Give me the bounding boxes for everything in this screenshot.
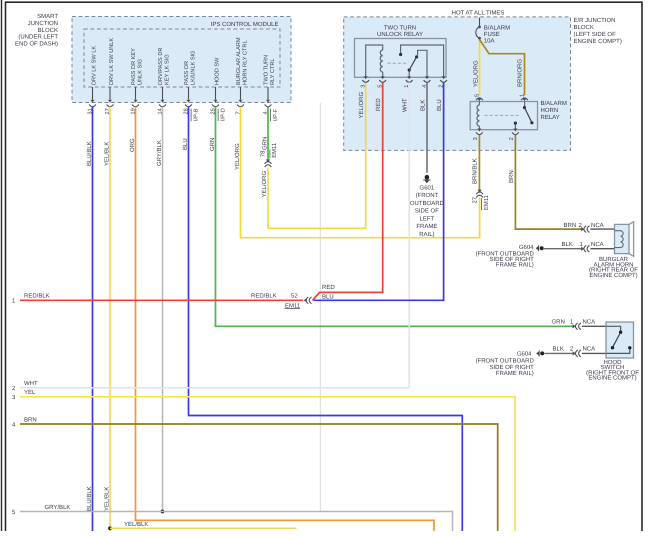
two turn relay pin 5 connector (378, 76, 386, 88)
svg-text:RAIL): RAIL) (419, 231, 434, 238)
fuse label (484, 25, 510, 45)
svg-text:BRN: BRN (508, 170, 515, 183)
wire into horn pin2 (590, 228, 614, 230)
svg-text:BRN/BLK: BRN/BLK (472, 158, 479, 184)
wire YEL/ORG pin7 (to EM11-27) (241, 107, 480, 238)
svg-text:FRAME RAIL): FRAME RAIL) (496, 262, 534, 269)
B/ALARM fuse 10A (476, 18, 481, 40)
svg-text:HOOD SW: HOOD SW (214, 57, 220, 85)
svg-text:ENGINE COMPT): ENGINE COMPT) (589, 272, 637, 279)
svg-text:YEL/ORG: YEL/ORG (261, 170, 268, 197)
wire YEL/ORG fuse to b/alarm horn relay pin 5 (479, 40, 481, 96)
svg-text:BURGLAR ALARM: BURGLAR ALARM (236, 37, 242, 85)
svg-text:RED: RED (322, 284, 335, 291)
IPS pin 14 (DRV/PASS DR) (157, 48, 170, 115)
svg-text:GRY/BLK: GRY/BLK (156, 140, 163, 166)
svg-text:78: 78 (260, 150, 267, 157)
ground G601 (423, 175, 430, 184)
svg-text:DRV/PASS DR: DRV/PASS DR (157, 48, 164, 85)
svg-text:NCA: NCA (591, 222, 604, 229)
svg-text:DRV LK SW UNLK: DRV LK SW UNLK (109, 38, 115, 85)
svg-text:GRN: GRN (209, 138, 216, 151)
connector BLK 1 NCA (burglar alarm horn) (562, 241, 604, 252)
svg-text:LEFT: LEFT (420, 215, 435, 222)
wire GRN pin4 (to EM11-78) (267, 107, 269, 160)
smart junction block (dashed box, blue fill) (72, 17, 291, 103)
wire BLU relay pin2 to EM11-52 (314, 82, 444, 300)
wire hood switch pin2 to ground G604 (545, 352, 574, 354)
svg-text:NCA: NCA (591, 241, 604, 248)
svg-text:YEL/ORG: YEL/ORG (358, 91, 365, 118)
svg-text:BLOCK: BLOCK (38, 27, 58, 34)
svg-text:RELAY: RELAY (541, 114, 560, 121)
svg-text:NCA: NCA (583, 346, 596, 353)
svg-text:(UNDER LEFT: (UNDER LEFT (18, 34, 58, 41)
svg-text:WHT: WHT (402, 98, 409, 112)
wire RED/BLK from left edge (circuit 1) (20, 299, 303, 301)
svg-text:SIDE OF: SIDE OF (415, 208, 439, 215)
svg-text:5: 5 (474, 94, 480, 97)
wire BLK relay pin4 to G601 (426, 82, 428, 172)
svg-text:SIDE OF RIGHT: SIDE OF RIGHT (489, 364, 534, 371)
wire GRY/BLK circuit 5 (20, 512, 453, 532)
ground G604 (hood switch) (536, 350, 544, 356)
svg-text:3: 3 (361, 85, 367, 88)
wire BLU/BLK pin31 (92, 107, 94, 531)
IPS pin 28 (PASS DR) (183, 50, 199, 121)
wire horn pin1 to ground G604 (544, 248, 582, 250)
svg-text:PASS DR KEY: PASS DR KEY (131, 48, 137, 85)
svg-text:RED/BLK: RED/BLK (24, 293, 50, 300)
svg-text:YEL/BLK: YEL/BLK (104, 142, 111, 166)
wire GRN pin25 (to hood switch) (216, 107, 574, 327)
relay switch (two turn) (399, 45, 444, 77)
inline connector EM11-78 (260, 143, 279, 167)
svg-text:(FRONT OUTBOARD: (FRONT OUTBOARD (476, 357, 535, 364)
wire BRN circuit 4 (20, 424, 498, 531)
svg-text:BRN: BRN (564, 222, 577, 229)
wire ORG pin19 (136, 107, 435, 531)
svg-text:GRN: GRN (262, 137, 269, 150)
junction dot GRY/BLK (161, 510, 165, 514)
horn relay top pin 1 connector (520, 94, 528, 101)
svg-text:(FRONT: (FRONT (416, 192, 439, 199)
svg-text:27: 27 (471, 197, 478, 204)
svg-text:10A: 10A (484, 38, 495, 45)
svg-text:BLU: BLU (322, 293, 334, 300)
svg-text:WHT: WHT (24, 380, 38, 387)
svg-text:RED: RED (375, 98, 382, 111)
wire into hood switch pin1 (582, 325, 606, 327)
svg-text:HORN: HORN (541, 107, 559, 114)
svg-text:BLU: BLU (436, 99, 443, 111)
horn relay bottom pin 2 connector (509, 129, 519, 141)
svg-text:52: 52 (291, 293, 298, 300)
svg-text:UNLK SIG: UNLK SIG (137, 59, 143, 85)
svg-text:HOT AT ALL TIMES: HOT AT ALL TIMES (452, 10, 505, 17)
svg-text:DRV LK SW LK: DRV LK SW LK (91, 46, 97, 85)
svg-text:OUTBOARD: OUTBOARD (410, 200, 445, 207)
svg-text:SMART: SMART (37, 13, 58, 20)
svg-text:GRY/BLK: GRY/BLK (45, 504, 71, 511)
svg-text:G601: G601 (420, 184, 435, 191)
svg-text:ENGINE COMPT): ENGINE COMPT) (588, 375, 636, 382)
IPS pin 25 (HOOD SW) (210, 57, 226, 121)
svg-text:BLU/BLK: BLU/BLK (86, 141, 93, 166)
svg-text:FUSE: FUSE (484, 31, 500, 38)
svg-text:3: 3 (473, 137, 479, 140)
svg-text:YEL: YEL (24, 389, 36, 396)
IPS pin 19 (PASS DR KEY) (130, 48, 143, 115)
wire WHT relay pin1 (20, 82, 409, 387)
connector GRN 1 NCA (hood switch) (552, 319, 596, 330)
wire GRY/BLK pin14 (162, 107, 164, 512)
svg-text:E/R JUNCTION: E/R JUNCTION (574, 17, 616, 24)
IPS control module (inner dashed box) (84, 29, 280, 87)
horn relay switch (514, 102, 534, 130)
svg-text:KEY LK SIG: KEY LK SIG (164, 54, 170, 85)
wire BRN/ORG fuse to b/alarm horn relay pin 1 (480, 40, 525, 96)
b/alarm horn relay box (470, 102, 537, 130)
svg-text:BLK: BLK (420, 100, 427, 111)
svg-text:EM11: EM11 (271, 143, 278, 158)
horn relay mechanical link (dashed) (485, 114, 519, 116)
svg-text:YEL/BLK: YEL/BLK (104, 487, 111, 511)
svg-text:YEL/BLK: YEL/BLK (124, 521, 148, 528)
svg-text:HORN RLY CTRL: HORN RLY CTRL (242, 40, 248, 85)
wire YEL circuit 3 (20, 397, 515, 531)
svg-text:(LEFT SIDE OF: (LEFT SIDE OF (574, 31, 617, 38)
two turn relay pin 4 connector (422, 76, 430, 88)
junction dot YEL/BLK (108, 526, 112, 530)
IPS pin 31 (DRV LK SW LK) (87, 46, 97, 115)
svg-text:2: 2 (509, 137, 515, 140)
svg-text:JUNCTION: JUNCTION (28, 20, 58, 27)
svg-text:ORG: ORG (129, 138, 136, 152)
svg-text:B/ALARM: B/ALARM (541, 100, 567, 107)
svg-text:UNLOCK RELAY: UNLOCK RELAY (377, 31, 423, 38)
b/alarm horn relay label (541, 100, 567, 121)
G601 label (410, 184, 445, 238)
two turn unlock relay box (355, 39, 447, 78)
svg-text:BRN: BRN (24, 416, 37, 423)
connector BRN 2 NCA (burglar alarm horn) (564, 222, 604, 233)
two turn relay pin 3 connector (361, 76, 369, 88)
svg-text:1: 1 (520, 94, 526, 97)
svg-text:BRN/ORG: BRN/ORG (517, 59, 524, 87)
svg-text:GRN: GRN (552, 319, 565, 326)
hood switch label (586, 359, 639, 382)
burglar alarm horn symbol (615, 222, 634, 257)
connector BLK 2 NCA (hood switch) (553, 346, 596, 357)
svg-text:RLY CTRL: RLY CTRL (270, 58, 276, 85)
wire BRN/BLK horn relay pin3 to EM11-27 (478, 135, 480, 190)
IPS pin 27 (DRV LK SW UNLK) (105, 38, 115, 115)
svg-text:END OF DASH): END OF DASH) (15, 40, 58, 47)
svg-text:I/P-F: I/P-F (272, 108, 279, 121)
svg-text:G604: G604 (519, 244, 534, 251)
svg-text:BLOCK: BLOCK (574, 24, 594, 31)
svg-text:TWO TURN: TWO TURN (263, 55, 269, 85)
svg-text:G604: G604 (517, 351, 532, 358)
relay coil (two turn) (366, 45, 383, 77)
wire YEL/ORG pin4 continuation (to two-turn relay pin 3) (268, 82, 366, 228)
inline connector EM11-52 (285, 293, 312, 310)
svg-text:BLU: BLU (182, 138, 189, 150)
ground G604 (horn) (536, 245, 544, 251)
svg-text:IPS CONTROL MODULE: IPS CONTROL MODULE (211, 21, 279, 28)
page edge line (left outer) (1, 0, 3, 531)
horn relay top pin 5 connector (474, 94, 482, 101)
fold line (faint) (319, 103, 321, 512)
svg-text:B/ALARM: B/ALARM (484, 25, 510, 32)
svg-text:BLU/BLK: BLU/BLK (86, 486, 93, 511)
svg-text:BLK: BLK (562, 241, 573, 248)
svg-text:I/P-B: I/P-B (192, 108, 199, 121)
svg-text:EM11: EM11 (483, 195, 490, 210)
wire BLU pin28 (189, 107, 463, 531)
smart junction block label (15, 13, 58, 47)
relay mechanical link (dashed) (388, 62, 407, 64)
E/R junction block label (574, 17, 622, 45)
wire YEL/BLK pin27 (109, 107, 111, 531)
horn relay bottom pin 3 connector (473, 129, 483, 141)
wire RED relay pin5 to EM11-52 (313, 82, 383, 300)
svg-text:YEL/ORG: YEL/ORG (473, 60, 480, 87)
hood switch symbol (606, 322, 634, 358)
svg-text:YEL/ORG: YEL/ORG (234, 143, 241, 170)
two turn relay pin 1 connector (404, 76, 412, 88)
svg-text:TWO TURN: TWO TURN (384, 25, 416, 32)
svg-text:I/P-D: I/P-D (219, 108, 226, 121)
two turn relay pin 2 connector (439, 76, 447, 88)
svg-text:FRAME RAIL): FRAME RAIL) (496, 370, 534, 377)
horn relay coil (477, 102, 479, 130)
svg-text:LK/UNLK SIG: LK/UNLK SIG (189, 50, 196, 85)
inline connector EM11-27 (471, 190, 489, 211)
svg-text:FRAME: FRAME (416, 223, 437, 230)
E/R junction block (dashed box, blue fill) (344, 17, 571, 151)
wire YEL/BLK horizontal bottom (110, 527, 297, 529)
IPS pin 4 (TWO TURN) (263, 55, 279, 121)
wire BRN horn relay pin2 to burglar alarm horn (515, 135, 581, 229)
svg-text:RED/BLK: RED/BLK (251, 293, 277, 300)
svg-text:PASS DR: PASS DR (184, 61, 190, 85)
svg-text:ENGINE COMPT): ENGINE COMPT) (574, 38, 622, 45)
svg-text:NCA: NCA (583, 319, 596, 326)
burglar alarm horn label (589, 256, 638, 279)
IPS pin 7 (BURGLAR ALARM) (235, 37, 248, 114)
svg-text:BLK: BLK (553, 346, 564, 353)
